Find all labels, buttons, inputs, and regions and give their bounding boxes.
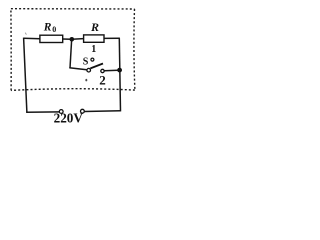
node junction between R0 and R: [70, 37, 75, 42]
svg-text:220V: 220V: [54, 111, 84, 126]
svg-text:R: R: [43, 21, 52, 33]
wire: left lead of R0 from left wire corner: [23, 37, 40, 40]
wire: right lead of R: [104, 37, 120, 39]
wire: right lead of R0: [63, 38, 72, 40]
scan speck near top-left corner: [25, 33, 26, 35]
terminal circle left (220V supply): [59, 110, 63, 114]
switch contact 2 circle: [101, 69, 104, 72]
wire: bottom-right wire from right terminal: [84, 110, 120, 113]
wire: bottom-left wire to left supply terminal: [26, 111, 59, 113]
wire: contact 2 to right wire: [104, 69, 118, 72]
dashed enclosure box: [11, 9, 135, 91]
switch S arm (thrown between contacts): [90, 64, 103, 69]
svg-text:0: 0: [52, 25, 56, 34]
resistor R0: [40, 35, 63, 42]
wire: right vertical wire: [119, 38, 120, 111]
terminal circle right (220V supply): [81, 109, 85, 113]
svg-text:1: 1: [91, 44, 96, 55]
svg-text:2: 2: [99, 73, 106, 88]
node junction on right wire at switch row: [117, 68, 122, 73]
wire: horizontal feed to switch pivot: [69, 68, 86, 70]
svg-text:S: S: [83, 56, 89, 67]
switch contact 1 circle: [91, 58, 94, 61]
wire: left vertical wire: [24, 38, 27, 113]
switch S pivot circle: [87, 68, 91, 72]
wire: left lead of R: [72, 38, 84, 41]
wire: vertical wire from junction down to switch: [70, 41, 72, 69]
svg-text:R: R: [90, 20, 99, 34]
scan speck left of digit 2: [85, 79, 87, 82]
resistor R: [84, 35, 104, 42]
